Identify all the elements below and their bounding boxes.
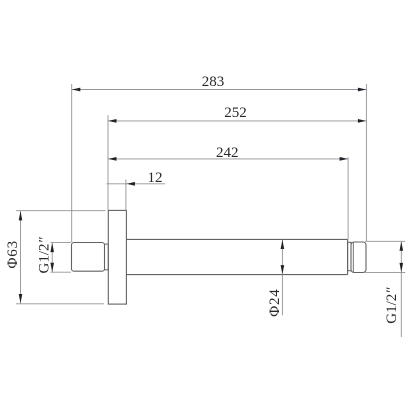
svg-text:242: 242: [216, 145, 239, 161]
wire: pipe bottom edge: [126, 274, 347, 276]
node: extension line top right G1/2: [365, 240, 405, 242]
node: extension line left for 283: [71, 84, 73, 242]
svg-text:252: 252: [224, 105, 247, 121]
node: arrow up d24: [281, 240, 285, 249]
wire: dimension line 283: [72, 89, 367, 91]
node: arrow for 12: [127, 182, 135, 186]
node: arrow up d63: [19, 211, 23, 220]
node: extension line right for 242: [347, 157, 349, 239]
node: extension line left shared 252 242 12: [107, 115, 109, 210]
wire: dimension line 252: [108, 120, 366, 122]
wire: dimension line right G1/2: [400, 241, 402, 337]
wire: connector body (threaded tail, left): [72, 243, 105, 272]
wire: pipe top edge: [126, 238, 347, 240]
wire: end fitting body: [351, 242, 366, 273]
wire: dimension line 242: [108, 158, 348, 160]
node: extension line bottom right G1/2: [365, 271, 405, 273]
node: arrow down d63: [19, 294, 23, 303]
node: arrow up right G1/2: [400, 242, 404, 251]
svg-text:G1/2″: G1/2″: [384, 287, 400, 324]
wire: dimension line diameter 24: [281, 240, 283, 316]
wire: end neck: [348, 242, 351, 270]
node: arrow right 252: [358, 119, 366, 123]
node: arrow up left G1/2: [50, 243, 54, 252]
node: arrow down left G1/2: [50, 263, 54, 272]
node: arrow down right G1/2: [400, 263, 404, 272]
node: extension line top for diameter 63: [16, 210, 106, 212]
wire: dimension line diameter 63: [20, 211, 22, 303]
node: extension line right for 12: [125, 180, 127, 211]
wire: flange plate: [108, 210, 126, 304]
wire: neck between connector and flange: [105, 244, 109, 270]
node: extension line bottom for diameter 63: [16, 303, 104, 305]
node: arrow right 283: [358, 88, 366, 92]
node: extension line top left G1/2: [51, 242, 71, 244]
wire: end fitting curvature line: [352, 243, 354, 272]
node: arrow left 242: [108, 157, 116, 161]
node: arrow left 252: [108, 119, 116, 123]
node: extension line bottom left G1/2: [51, 271, 71, 273]
svg-text:12: 12: [148, 170, 163, 186]
node: extension line right for 283 and 252: [365, 84, 367, 241]
node: arrow right 242: [340, 157, 348, 161]
node: arrow left 283: [72, 88, 80, 92]
svg-text:283: 283: [202, 74, 225, 90]
node: arrow down d24: [281, 265, 285, 274]
svg-text:Φ24: Φ24: [267, 288, 283, 316]
wire: dimension line 12: [107, 183, 166, 185]
wire: pipe end edge: [347, 239, 349, 274]
svg-text:G1/2″: G1/2″: [37, 236, 53, 273]
svg-text:Φ63: Φ63: [5, 240, 21, 268]
wire: dimension line left G1/2: [51, 243, 53, 273]
